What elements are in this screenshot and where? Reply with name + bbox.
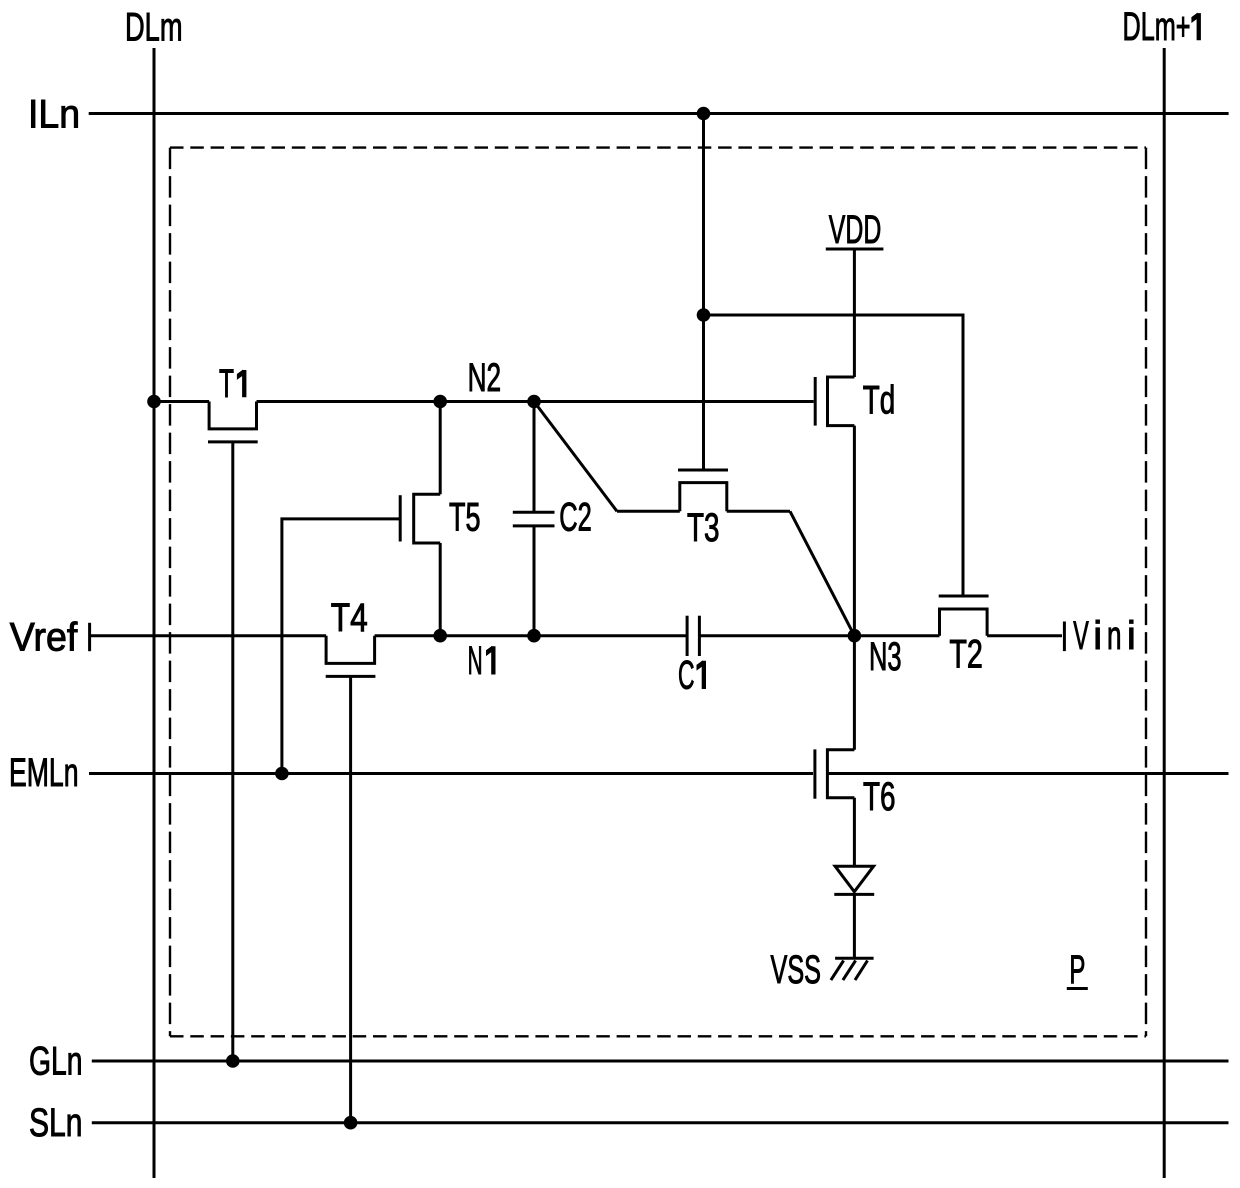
wire GLn horizontal line (92, 1060, 1229, 1063)
svg-text:C: C (678, 654, 695, 698)
pixel boundary dashed box P (170, 148, 1146, 1037)
transistor T2 channel notch (940, 609, 988, 636)
node N1 dot right (527, 629, 541, 643)
diode OLED triangle (835, 866, 874, 892)
svg-text:VSS: VSS (771, 948, 822, 992)
node dot at branch y315 (697, 308, 711, 322)
wire N2 dot1 down to T5 (439, 402, 442, 495)
svg-text:i: i (1093, 614, 1102, 658)
wire T3 left lead (617, 510, 680, 513)
transistor Td channel (828, 377, 855, 426)
svg-text:DLm: DLm (125, 5, 183, 49)
wire VDD vertical to Td (853, 249, 856, 377)
transistor Td gate bar (814, 377, 817, 426)
capacitor C2 plates (513, 511, 555, 514)
wire N2 horizontal from DLm node to T1 (154, 400, 209, 403)
ground VSS bar (835, 957, 874, 960)
terminal tick Vini (1063, 622, 1066, 652)
transistor T6 gate bar (813, 749, 816, 798)
svg-text:V: V (1073, 614, 1089, 658)
transistor T6 channel (827, 750, 854, 798)
wire T3 right lead (727, 510, 790, 513)
svg-text:N: N (468, 639, 483, 683)
node N2 dot left (433, 395, 447, 409)
node dot DLm/T1 (147, 395, 161, 409)
wire DLm vertical data line (153, 48, 156, 1178)
wire T6 down to diode (853, 798, 856, 866)
transistor T3 gate bar (678, 469, 728, 472)
transistor T1 channel notch (209, 402, 256, 429)
svg-text:T3: T3 (687, 506, 720, 550)
ground hatch strokes (831, 961, 844, 981)
diode cathode bar (834, 893, 874, 896)
svg-text:P: P (1069, 948, 1085, 992)
svg-text:Vref: Vref (10, 615, 78, 659)
svg-text:SLn: SLn (29, 1101, 83, 1145)
capacitor C2 bottom lead (533, 526, 536, 636)
svg-text:T: T (219, 362, 234, 406)
node N2 dot right (527, 395, 541, 409)
wire SLn horizontal line (92, 1121, 1229, 1124)
wire DLm+1 vertical data line (1163, 48, 1166, 1178)
svg-text:N2: N2 (468, 356, 502, 400)
svg-text:GLn: GLn (29, 1039, 83, 1083)
wire diagonal T3 to N3 (790, 511, 854, 635)
svg-text:n: n (1107, 614, 1122, 658)
svg-text:EMLn: EMLn (9, 751, 79, 795)
svg-text:VDD: VDD (829, 208, 882, 252)
transistor T4 channel notch (326, 636, 375, 664)
svg-text:T2: T2 (949, 633, 983, 677)
wire ILn drop to T3 gate (702, 114, 705, 471)
transistor T3 channel notch (680, 483, 727, 512)
wire T5 gate left then down to EMLn (282, 519, 400, 774)
transistor T2 gate bar (939, 595, 989, 598)
terminal tick Vref (88, 623, 91, 651)
svg-text:DLm+: DLm+ (1123, 5, 1191, 49)
transistor T1 gate bar (208, 440, 258, 443)
node N3 dot (848, 629, 862, 643)
svg-text:i: i (1127, 614, 1136, 658)
wire ILn horizontal line (89, 112, 1229, 115)
node dot on SLn (344, 1116, 358, 1130)
wire N3 down to T6 (853, 636, 856, 750)
transistor T4 gate bar (326, 675, 376, 678)
wire diode to ground (853, 894, 856, 958)
capacitor C2 top lead (533, 402, 536, 513)
svg-text:T4: T4 (331, 596, 368, 640)
svg-text:ILn: ILn (28, 92, 80, 136)
wire EMLn horizontal line segments (89, 772, 813, 775)
label P underline (1067, 987, 1088, 990)
node dot on GLn (226, 1054, 240, 1068)
node dot on EMLn (275, 767, 289, 781)
wire branch horizontal at y315 then down to T2 gate (704, 315, 964, 596)
wire diagonal N2 to T3 left lead (534, 402, 617, 512)
wire N2 horizontal from T1 to Td gate (257, 400, 814, 403)
svg-text:N3: N3 (869, 635, 902, 679)
svg-text:T5: T5 (449, 496, 481, 540)
node N1 dot left (433, 629, 447, 643)
capacitor C1 plates (686, 616, 689, 656)
wire T1 gate down to GLn (231, 442, 234, 1061)
svg-text:T6: T6 (863, 775, 896, 819)
svg-text:C2: C2 (559, 496, 592, 540)
transistor T5 channel (414, 494, 441, 543)
node dot on ILn (697, 107, 711, 121)
wire T5 down to N1 dot1 (439, 543, 442, 636)
power VDD underline (826, 248, 884, 251)
wire Vref horizontal line segments (90, 634, 327, 637)
wire Td drain down to N3 (853, 426, 856, 636)
transistor T5 gate bar (399, 495, 402, 541)
svg-text:Td: Td (863, 379, 896, 423)
wire T4 gate down to SLn (349, 676, 352, 1122)
